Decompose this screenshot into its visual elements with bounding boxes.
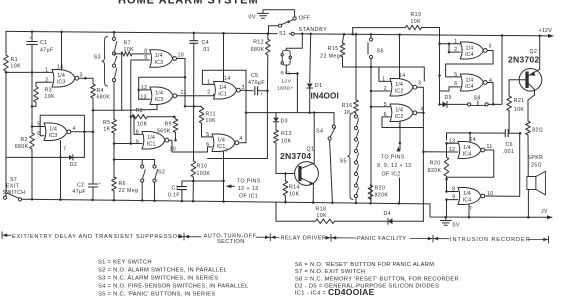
svg-text:R14: R14 xyxy=(289,185,300,191)
svg-text:R13: R13 xyxy=(281,131,292,137)
svg-text:S4: S4 xyxy=(316,129,323,135)
svg-text:10K: 10K xyxy=(289,192,300,198)
svg-text:IC1: IC1 xyxy=(147,142,156,148)
svg-text:S5: S5 xyxy=(340,159,347,165)
svg-text:EXIT/ENTRY DELAY AND TRANSIENT: EXIT/ENTRY DELAY AND TRANSIENT SUPPRESSO… xyxy=(12,234,183,240)
svg-text:47µF: 47µF xyxy=(40,48,54,54)
svg-text:10K: 10K xyxy=(206,118,217,124)
svg-text:11: 11 xyxy=(181,90,187,96)
svg-text:5: 5 xyxy=(206,132,209,138)
svg-text:3: 3 xyxy=(418,81,421,87)
svg-text:R12: R12 xyxy=(253,40,264,46)
svg-text:R18: R18 xyxy=(316,207,327,213)
svg-text:1K: 1K xyxy=(103,127,110,133)
svg-text:4: 4 xyxy=(240,136,243,142)
svg-text:R6: R6 xyxy=(119,181,126,187)
svg-text:1/4: 1/4 xyxy=(155,53,163,59)
svg-text:12V: 12V xyxy=(281,78,291,84)
svg-text:10K: 10K xyxy=(514,107,525,113)
svg-text:0V: 0V xyxy=(453,223,460,229)
svg-text:R9: R9 xyxy=(165,121,172,127)
svg-text:HOME ALARM SYSTEM: HOME ALARM SYSTEM xyxy=(118,0,259,7)
svg-text:IC2: IC2 xyxy=(395,89,404,95)
svg-text:S8: S8 xyxy=(474,96,481,102)
svg-text:14: 14 xyxy=(224,76,231,82)
svg-text:C6: C6 xyxy=(506,142,513,148)
svg-text:1/4: 1/4 xyxy=(217,137,225,143)
svg-text:1/4: 1/4 xyxy=(155,90,163,96)
svg-text:C2: C2 xyxy=(77,183,84,189)
svg-text:R19: R19 xyxy=(411,12,422,18)
svg-text:R5: R5 xyxy=(103,120,110,126)
svg-text:C4: C4 xyxy=(202,40,209,46)
svg-text:.001: .001 xyxy=(503,149,515,155)
svg-text:12 + 13: 12 + 13 xyxy=(238,186,258,192)
svg-text:R10: R10 xyxy=(197,164,208,170)
svg-text:R20: R20 xyxy=(375,186,386,192)
svg-text:47µF: 47µF xyxy=(72,189,86,195)
svg-text:1/4: 1/4 xyxy=(395,82,403,88)
svg-text:1/4: 1/4 xyxy=(463,145,471,151)
svg-text:680K: 680K xyxy=(97,95,111,101)
svg-text:IC1: IC1 xyxy=(218,92,227,98)
svg-text:R11: R11 xyxy=(206,112,216,118)
svg-text:IC4: IC4 xyxy=(465,52,474,58)
svg-text:+12V: +12V xyxy=(539,28,553,34)
svg-text:8: 8 xyxy=(144,49,147,55)
svg-text:S6 = N.O. 'RESET' BUTTON FOR P: S6 = N.O. 'RESET' BUTTON FOR PANIC ALARM xyxy=(295,262,434,268)
svg-text:C3: C3 xyxy=(172,186,179,192)
svg-text:EXIT: EXIT xyxy=(6,184,20,190)
svg-text:STANDBY: STANDBY xyxy=(299,27,328,33)
svg-text:2N3702: 2N3702 xyxy=(508,55,539,65)
svg-text:S7: S7 xyxy=(10,177,17,183)
svg-text:10K: 10K xyxy=(124,47,135,53)
svg-text:R16: R16 xyxy=(342,103,353,109)
svg-text:10K: 10K xyxy=(317,213,328,219)
svg-text:10K: 10K xyxy=(411,19,422,25)
svg-text:S2 = N.O. ALARM SWITCHES, IN P: S2 = N.O. ALARM SWITCHES, IN PARALLEL xyxy=(98,267,227,273)
svg-text:IC3: IC3 xyxy=(57,80,66,86)
svg-text:OF IC1: OF IC1 xyxy=(239,193,258,199)
svg-text:OFF: OFF xyxy=(299,16,311,22)
svg-text:10K: 10K xyxy=(281,139,292,145)
svg-text:C5: C5 xyxy=(251,73,258,79)
svg-text:IN4OOI: IN4OOI xyxy=(311,91,339,100)
svg-text:8: 8 xyxy=(136,129,139,135)
svg-text:7: 7 xyxy=(63,147,66,153)
svg-text:9: 9 xyxy=(136,139,139,145)
svg-text:22 Meg: 22 Meg xyxy=(320,53,340,59)
svg-text:10: 10 xyxy=(178,52,185,58)
svg-text:2: 2 xyxy=(207,89,210,95)
svg-text:2N3704: 2N3704 xyxy=(280,151,311,161)
svg-text:1/4: 1/4 xyxy=(147,135,155,141)
svg-text:IC1 - IC4 =: IC1 - IC4 = xyxy=(295,291,327,297)
svg-text:1/4: 1/4 xyxy=(49,126,57,132)
svg-text:R8: R8 xyxy=(136,108,143,114)
svg-text:D2: D2 xyxy=(70,162,77,168)
svg-text:1/4: 1/4 xyxy=(466,45,474,51)
svg-text:JV: JV xyxy=(541,209,548,215)
svg-text:13: 13 xyxy=(140,94,147,100)
svg-text:S1 = KEY SWITCH: S1 = KEY SWITCH xyxy=(98,259,152,265)
svg-text:.01: .01 xyxy=(202,47,210,53)
svg-text:680K: 680K xyxy=(251,47,265,53)
svg-text:IC4: IC4 xyxy=(463,198,472,204)
svg-text:+: + xyxy=(261,92,264,97)
svg-text:12: 12 xyxy=(141,85,148,91)
svg-text:INTRUSION RECORDER: INTRUSION RECORDER xyxy=(450,237,531,243)
svg-text:5: 5 xyxy=(454,72,457,78)
svg-text:1/4: 1/4 xyxy=(57,73,65,79)
svg-text:S4 = N.O. FIRE-SENSOR SWITCHES: S4 = N.O. FIRE-SENSOR SWITCHES, IN PARAL… xyxy=(98,283,249,289)
svg-text:IC3: IC3 xyxy=(155,97,164,103)
svg-text:IC4: IC4 xyxy=(463,152,472,158)
svg-text:680K: 680K xyxy=(15,144,29,150)
svg-text:D3: D3 xyxy=(281,119,288,125)
svg-text:25Ω: 25Ω xyxy=(531,162,542,168)
svg-text:R20: R20 xyxy=(430,161,441,167)
svg-text:RY1: RY1 xyxy=(281,70,292,76)
svg-text:820K: 820K xyxy=(428,168,442,174)
svg-text:+: + xyxy=(29,36,32,41)
svg-text:22 Meg: 22 Meg xyxy=(119,188,139,194)
svg-text:10K: 10K xyxy=(11,64,22,70)
svg-text:820K: 820K xyxy=(375,193,389,199)
svg-text:3: 3 xyxy=(80,72,83,78)
svg-text:R21: R21 xyxy=(514,98,525,104)
svg-text:TO PINS: TO PINS xyxy=(381,155,405,161)
svg-text:10K: 10K xyxy=(137,122,148,128)
svg-text:SWITCH: SWITCH xyxy=(3,190,26,196)
svg-text:D5: D5 xyxy=(445,95,452,101)
svg-text:180Ω+: 180Ω+ xyxy=(277,86,294,92)
svg-text:S8 = N.C. MEMORY 'RESET' BUTTO: S8 = N.C. MEMORY 'RESET' BUTTON, FOR REC… xyxy=(295,276,459,282)
svg-text:SPKR: SPKR xyxy=(528,155,544,161)
svg-text:IC4: IC4 xyxy=(465,84,474,90)
svg-text:6: 6 xyxy=(454,81,457,87)
svg-text:S6: S6 xyxy=(377,49,384,55)
svg-text:100K: 100K xyxy=(197,171,211,177)
svg-text:9: 9 xyxy=(144,55,147,61)
svg-text:0.1F: 0.1F xyxy=(168,192,180,198)
svg-text:R7: R7 xyxy=(124,41,131,47)
svg-text:11: 11 xyxy=(487,144,493,150)
svg-text:S3: S3 xyxy=(94,55,101,61)
svg-text:8, 9, 12 + 13: 8, 9, 12 + 13 xyxy=(377,163,411,169)
svg-text:R4: R4 xyxy=(97,88,104,94)
svg-text:+: + xyxy=(99,181,102,186)
svg-text:S3 = N.C. ALARM SWITCHES, IN S: S3 = N.C. ALARM SWITCHES, IN SERIES xyxy=(98,275,218,281)
svg-text:2: 2 xyxy=(45,77,48,83)
svg-text:1: 1 xyxy=(45,67,48,73)
svg-text:D1: D1 xyxy=(315,83,323,89)
svg-text:3: 3 xyxy=(489,44,492,50)
svg-text:PANIC FACILITY: PANIC FACILITY xyxy=(357,236,406,242)
svg-text:R3: R3 xyxy=(45,88,52,94)
svg-text:OF IC2: OF IC2 xyxy=(382,172,401,178)
svg-text:S5 = N.C. 'PANIC' BUTTONS, IN: S5 = N.C. 'PANIC' BUTTONS, IN SERIES xyxy=(98,291,216,297)
svg-text:14: 14 xyxy=(57,65,64,71)
svg-text:0V: 0V xyxy=(249,15,256,21)
svg-text:D4: D4 xyxy=(384,211,391,217)
svg-text:IC3: IC3 xyxy=(155,60,164,66)
svg-text:1/4: 1/4 xyxy=(466,77,474,83)
svg-text:7: 7 xyxy=(225,149,228,155)
svg-text:1/4: 1/4 xyxy=(463,191,471,197)
svg-text:S7 = N.O. EXIT SWITCH: S7 = N.O. EXIT SWITCH xyxy=(295,269,365,275)
svg-text:10K: 10K xyxy=(45,94,56,100)
svg-text:1/4: 1/4 xyxy=(219,85,227,91)
svg-text:82Ω: 82Ω xyxy=(532,128,543,134)
svg-text:CD4OOIAE: CD4OOIAE xyxy=(328,287,375,297)
svg-text:1/4: 1/4 xyxy=(395,107,403,113)
svg-text:C1: C1 xyxy=(40,40,47,46)
svg-text:RELAY DRIVER: RELAY DRIVER xyxy=(281,235,327,241)
svg-text:S1: S1 xyxy=(279,31,286,37)
svg-text:470µF: 470µF xyxy=(248,80,265,86)
svg-text:6: 6 xyxy=(206,142,209,148)
svg-text:R15: R15 xyxy=(328,46,339,52)
svg-text:IC3: IC3 xyxy=(49,133,58,139)
svg-text:R2: R2 xyxy=(21,137,28,143)
svg-text:IC2: IC2 xyxy=(395,114,404,120)
svg-text:S2: S2 xyxy=(158,170,165,176)
svg-text:TO PINS: TO PINS xyxy=(237,179,261,185)
svg-text:R1: R1 xyxy=(11,57,18,63)
svg-text:SECTION: SECTION xyxy=(217,239,245,245)
